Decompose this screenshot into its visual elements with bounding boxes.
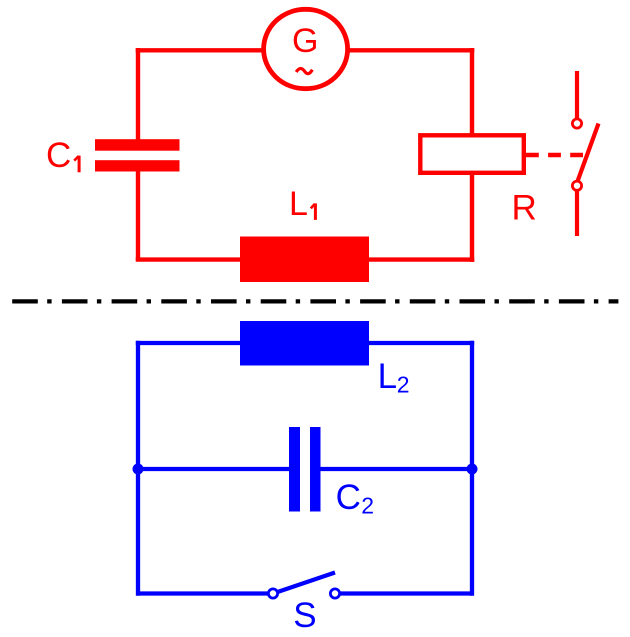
label L2 [378,357,410,397]
svg-text:C: C [46,136,71,175]
relay contact switch: top lead [575,71,579,119]
wire: middle branch left of C2 [138,467,294,471]
wire: red loop left lower segment [136,170,140,260]
wire: red loop right upper segment [470,48,474,135]
dash-dot divider line [12,299,618,303]
switch S: right terminal circle [330,589,339,598]
svg-text:2: 2 [361,493,374,519]
switch S: blade [278,573,336,593]
capacitor C2 [289,427,321,512]
label C2 [336,478,374,518]
relay contact: top terminal circle [572,119,581,128]
inductor L2 [240,321,369,366]
svg-text:G: G [292,22,318,60]
generator G [264,9,348,88]
wire: red loop top [136,48,475,52]
junction node right [467,464,478,475]
svg-text:S: S [293,596,316,635]
label L1 [289,185,315,223]
wire: blue loop top [136,341,474,345]
relay contact: blade [578,124,599,181]
capacitor C1 [95,139,180,171]
wire: blue loop right [470,341,474,596]
switch S: left terminal circle [268,589,277,598]
svg-text:2: 2 [397,372,410,398]
dashed mechanical link from R to contact [526,153,584,158]
svg-text:C: C [336,478,361,517]
wire: middle branch right of C2 [315,467,472,471]
resistor R (relay coil) [420,135,524,173]
generator sine symbol [296,68,312,73]
svg-text:L: L [378,357,397,396]
wire: bottom right of switch [340,591,473,595]
relay contact: bottom lead [575,191,579,236]
wire: red loop left upper segment [136,48,140,140]
junction node left [133,464,144,475]
wire: red loop bottom [136,257,475,261]
relay contact: bottom terminal circle [572,181,581,190]
svg-text:R: R [512,189,537,228]
svg-text:L: L [289,185,308,223]
wire: red loop right lower segment [470,173,474,262]
label C1 [46,136,79,175]
inductor L1 [240,237,369,283]
wire: blue loop left [136,341,140,596]
wire: bottom left of switch [138,591,269,595]
